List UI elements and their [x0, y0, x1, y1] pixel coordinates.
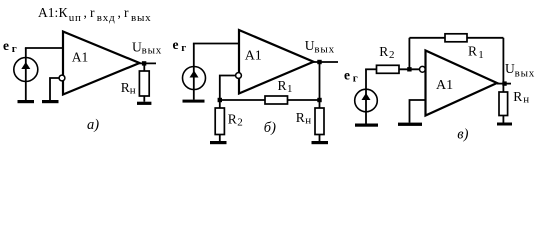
resistor R2 (v): [377, 65, 400, 73]
feedback vertical wire (v): [408, 38, 410, 70]
wire to Rn 1: [143, 63, 145, 71]
output vertical wire (v): [502, 38, 504, 92]
wire source3 to R2: [365, 68, 376, 70]
wire source3 vertical: [365, 69, 367, 123]
resistor R2 (b): [215, 108, 224, 135]
junction dot output 2: [317, 60, 321, 64]
svg-text:в): в): [457, 126, 468, 142]
output wire 1: [140, 62, 157, 64]
op-amp A1 triangle (a): [63, 32, 140, 95]
source E2 circle: [183, 67, 206, 90]
svg-text:r: r: [90, 5, 95, 20]
svg-text:вхд: вхд: [97, 12, 116, 24]
output vertical wire 2: [319, 62, 321, 108]
junction dot output 1: [142, 61, 146, 65]
wire source2 to input: [193, 43, 239, 45]
resistor R1 (b): [265, 96, 288, 104]
wire Rn to ground (v): [502, 116, 504, 123]
resistor Rn 1: [139, 71, 149, 96]
output wire (v): [497, 83, 511, 85]
ground under Rn 2: [312, 141, 329, 144]
resistor Rn 2: [315, 108, 324, 135]
wire inverting input 2: [220, 76, 236, 101]
ground under Rn 1: [137, 102, 151, 105]
wire R2 top (b): [219, 100, 221, 108]
op-amp A1 triangle (v): [426, 51, 498, 116]
ground under source 3: [355, 124, 378, 127]
svg-text:вых: вых: [131, 12, 152, 24]
svg-text:н: н: [305, 114, 311, 126]
wire Rn to ground 1: [143, 96, 145, 102]
svg-text:1: 1: [287, 83, 293, 95]
svg-text:е: е: [344, 68, 350, 83]
wire source1 to input: [25, 47, 63, 49]
inversion circle input (v): [420, 66, 426, 72]
op-amp A1 triangle (b): [239, 30, 314, 94]
svg-text:R: R: [513, 89, 522, 104]
node dot left 2: [218, 98, 222, 102]
feedback top wire (v): [409, 37, 503, 39]
resistor Rn (v): [499, 92, 508, 116]
svg-text:е: е: [173, 37, 179, 52]
source E1 arrow: [21, 62, 30, 69]
svg-text:г: г: [12, 43, 17, 55]
inversion circle input 2: [236, 73, 242, 79]
wire R2 to inverting input (v): [399, 68, 420, 70]
svg-text:U: U: [305, 38, 315, 53]
ground under Rn (v): [497, 123, 512, 126]
svg-text:R: R: [468, 44, 477, 59]
svg-text:е: е: [3, 38, 9, 53]
source E2 arrow: [190, 71, 199, 78]
svg-text:U: U: [132, 39, 142, 54]
wire source2 vertical: [193, 44, 195, 100]
svg-text:1: 1: [478, 49, 484, 61]
svg-text:R: R: [121, 80, 130, 95]
svg-text:г: г: [181, 42, 186, 54]
svg-text:U: U: [505, 61, 515, 76]
ground under source 1: [18, 100, 35, 103]
svg-text:н: н: [523, 94, 529, 106]
feedback wire 2: [220, 99, 320, 101]
svg-text:вых: вых: [142, 45, 163, 57]
svg-text:r: r: [124, 5, 129, 20]
svg-text:А1: А1: [245, 49, 262, 64]
svg-text:R: R: [296, 110, 305, 125]
svg-text:А1: А1: [436, 78, 453, 93]
svg-text:А1:: А1:: [38, 5, 58, 20]
svg-text:г: г: [353, 72, 358, 84]
resistor R1 (v): [445, 34, 467, 42]
wire Rn2 to ground: [319, 135, 321, 142]
svg-text:2: 2: [389, 49, 395, 61]
svg-text:вых: вых: [314, 43, 335, 55]
svg-text:А1: А1: [72, 50, 89, 65]
junction dot output (v): [502, 81, 506, 85]
svg-text:R: R: [278, 78, 287, 93]
svg-text:R: R: [379, 44, 388, 59]
svg-text:,: ,: [118, 5, 121, 20]
node dot feedback (v): [407, 67, 411, 71]
output wire 2: [314, 61, 339, 63]
svg-text:uп: uп: [69, 12, 82, 24]
source E1 circle: [14, 58, 38, 82]
svg-text:а): а): [87, 117, 99, 133]
svg-text:R: R: [228, 112, 237, 127]
inversion circle input 1: [59, 75, 65, 81]
node dot right 2: [317, 98, 321, 102]
wire R2 to ground (b): [219, 135, 221, 142]
ground non-inverting input (v): [398, 123, 422, 126]
svg-text:б): б): [264, 120, 276, 136]
svg-text:вых: вых: [515, 68, 536, 80]
svg-text:,: ,: [84, 5, 87, 20]
ground under source 2: [183, 100, 205, 103]
svg-text:н: н: [130, 85, 136, 97]
svg-text:2: 2: [237, 117, 243, 129]
wire non-inverting input (v): [410, 100, 426, 123]
source E3 circle: [355, 89, 378, 112]
wire source1 vertical: [25, 48, 27, 100]
svg-text:К: К: [59, 5, 69, 20]
wire inverting input 1: [50, 78, 59, 100]
ground under R2 (b): [210, 141, 227, 144]
ground inverting input 1: [42, 100, 59, 103]
source E3 arrow: [362, 93, 371, 100]
